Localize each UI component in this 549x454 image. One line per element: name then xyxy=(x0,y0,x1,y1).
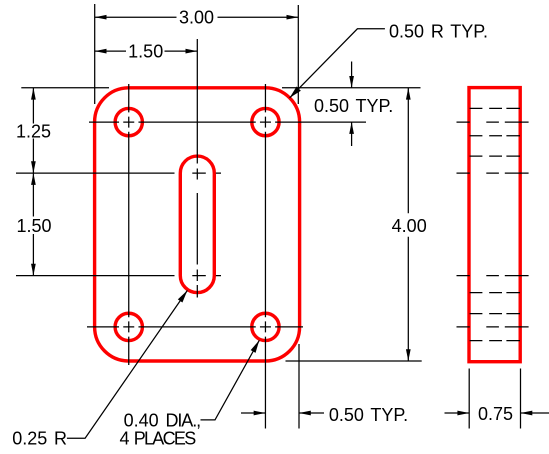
svg-text:4: 4 xyxy=(120,429,130,449)
arrowhead 4.00 bottom xyxy=(406,349,411,361)
arrowhead 3.00 left xyxy=(95,15,107,20)
svg-text:0.50 R TYP.: 0.50 R TYP. xyxy=(389,22,488,42)
arrowhead 1.50 left bottom xyxy=(31,264,36,276)
svg-text:4.00: 4.00 xyxy=(392,216,427,236)
dimension line 3.00 xyxy=(95,16,299,18)
svg-text:0.25 R: 0.25 R xyxy=(12,429,67,449)
arrowhead 0.25 R leader xyxy=(178,290,188,302)
side view centerline y=122.1 (top holes) xyxy=(457,121,529,123)
extension line x=94.7 (3.00/1.50 dims) xyxy=(94,4,96,104)
side view hidden line y=135.8 (top hole lower edge) xyxy=(470,135,520,137)
leader 0.25 R xyxy=(67,290,187,438)
extension line x=298.3 (3.00 dim) xyxy=(297,5,299,104)
dimension line 4.00 xyxy=(407,88,409,361)
extension line bottom edge to right (4.00 dim) xyxy=(286,360,422,362)
arrowhead 0.50 TYP top down xyxy=(349,76,354,88)
dimension line 0.75 xyxy=(445,412,549,414)
side view hidden line y=292.6 (slot bottom edge) xyxy=(470,292,520,294)
hole top-left (0.40 dia) xyxy=(115,108,142,135)
arrowhead 0.75 right xyxy=(521,411,533,416)
arrowhead 1.50 left xyxy=(95,49,107,54)
centerline horizontal through top holes y=122.1 xyxy=(89,121,366,123)
svg-text:1.50: 1.50 xyxy=(16,216,51,236)
hole top-right (0.40 dia) xyxy=(252,108,279,135)
arrowhead 1.50 left top xyxy=(31,173,36,185)
arrowhead 0.50 R TYP leader xyxy=(290,87,301,98)
extension+centerline slot bottom y=275.6 xyxy=(16,275,221,277)
centerline vertical through left holes x=128.75 xyxy=(128,84,130,365)
extension lines below side view (0.75 dim) xyxy=(469,369,520,429)
extension line top edge to left (1.25 dim) xyxy=(21,87,109,89)
side view hidden line y=340.6 (bottom hole lower edge) xyxy=(470,340,520,342)
arrowhead 1.50 right xyxy=(186,49,198,54)
side view hidden line y=313.6 (bottom hole upper edge) xyxy=(470,313,520,315)
arrowhead 3.00 right xyxy=(287,15,299,20)
side view centerline y=275.6 (slot bottom) xyxy=(457,275,529,277)
svg-text:0.50 TYP.: 0.50 TYP. xyxy=(314,96,393,116)
svg-text:0.40: 0.40 xyxy=(124,410,159,430)
leader 0.50 R TYP. xyxy=(290,29,385,98)
arrow stubs 0.50 TYP. top xyxy=(351,62,353,147)
arrowhead 1.25 top xyxy=(31,88,36,100)
arrowhead 0.40 DIA leader xyxy=(251,340,260,353)
leader 0.40 DIA. xyxy=(201,340,260,420)
svg-text:0.50 TYP.: 0.50 TYP. xyxy=(329,405,408,425)
side view hidden line y=108.4 (top hole upper edge) xyxy=(470,107,520,109)
side view centerline y=326.9 (bottom holes) xyxy=(457,326,529,328)
dimension line 1.50 top xyxy=(95,50,198,52)
arrowhead 0.50 TYP bottom left xyxy=(254,411,266,416)
slot (0.25 R ends) xyxy=(180,156,214,293)
svg-text:3.00: 3.00 xyxy=(179,8,214,28)
svg-text:1.25: 1.25 xyxy=(16,121,51,141)
centerline vertical through right holes x=265.45 (extends to bottom dim) xyxy=(264,84,266,429)
hole bottom-right (0.40 dia) xyxy=(252,313,279,340)
extension line top edge to right (4.00 dim) xyxy=(282,87,421,89)
dimension line 1.25/1.50 left xyxy=(32,88,34,276)
hole bottom-left (0.40 dia) xyxy=(115,313,142,340)
svg-text:PLACES: PLACES xyxy=(134,429,197,449)
centerline horizontal through bottom holes y=326.9 xyxy=(87,326,303,328)
side view centerline y=173.1 (slot top) xyxy=(457,172,529,174)
arrowhead 0.50 TYP top up xyxy=(349,122,354,134)
side view hidden line y=156.1 (slot top edge) xyxy=(470,155,520,157)
arrowhead 4.00 top xyxy=(406,88,411,100)
svg-text:DIA.,: DIA., xyxy=(166,410,201,430)
extension line x=299 (bottom 0.50 TYP dim) xyxy=(298,344,300,429)
arrowhead 0.75 left xyxy=(457,411,469,416)
dimension line 0.50 TYP. bottom xyxy=(241,412,324,414)
svg-text:1.50: 1.50 xyxy=(128,41,163,61)
svg-text:0.75: 0.75 xyxy=(478,404,513,424)
extension+centerline slot top y=173.1 xyxy=(16,172,221,174)
arrowhead 0.50 TYP bottom right xyxy=(299,411,311,416)
front view plate outline xyxy=(95,88,300,361)
side view outline xyxy=(469,88,520,362)
centerline vertical through slot x=197.3 xyxy=(196,39,198,298)
arrowhead 1.25 bottom xyxy=(31,161,36,173)
